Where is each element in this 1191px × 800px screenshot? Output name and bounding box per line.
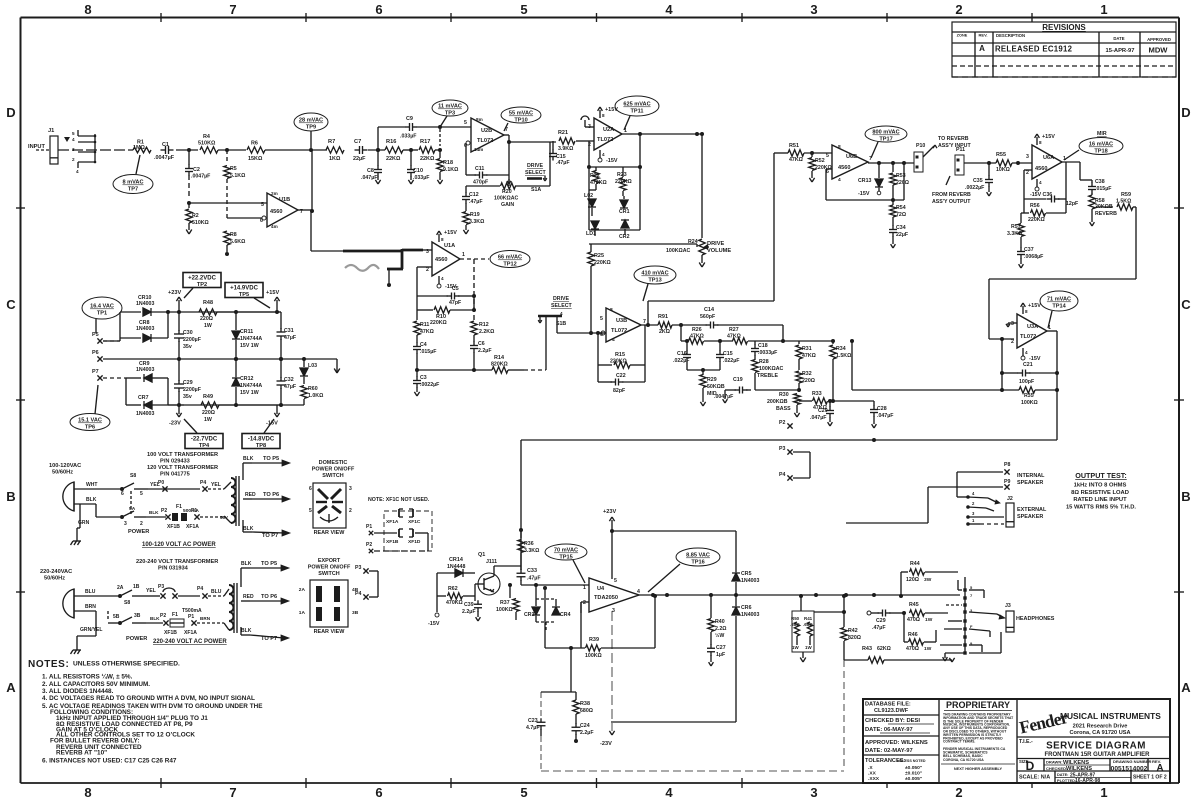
potentiometer R29 MID <box>700 370 725 406</box>
svg-text:410 mVAC: 410 mVAC <box>641 271 668 277</box>
capacitor C31 <box>277 312 297 361</box>
svg-text:220KΩ: 220KΩ <box>594 260 611 266</box>
svg-text:POWER ON/OFF: POWER ON/OFF <box>308 565 351 571</box>
svg-text:MDW: MDW <box>1149 46 1169 55</box>
svg-text:C12: C12 <box>469 192 479 198</box>
svg-text:R57: R57 <box>1011 224 1021 230</box>
op-amp U4 TDA2050 <box>583 578 640 614</box>
svg-text:1N4003: 1N4003 <box>136 326 154 332</box>
svg-text:DATE: 06-MAY-97: DATE: 06-MAY-97 <box>865 727 913 733</box>
LED LD1 <box>586 221 599 237</box>
resistor R10 <box>417 296 474 326</box>
wire <box>298 150 314 213</box>
wire <box>964 161 996 165</box>
svg-text:BLK: BLK <box>86 497 97 503</box>
svg-text:DATE: DATE <box>1113 36 1124 41</box>
svg-text:CR4: CR4 <box>560 612 571 618</box>
svg-text:R31: R31 <box>802 346 812 352</box>
power label +23V <box>168 290 182 312</box>
resistor R23 <box>615 167 632 196</box>
svg-text:6. INSTANCES NOT USED: C17 C25: 6. INSTANCES NOT USED: C17 C25 C26 R47 <box>42 758 177 765</box>
svg-text:1: 1 <box>1100 2 1107 17</box>
test point TP11 <box>615 96 659 130</box>
svg-text:B: B <box>1181 489 1190 504</box>
svg-text:R19: R19 <box>470 212 480 218</box>
internal speaker <box>846 462 1045 523</box>
resistor R40 <box>708 593 727 645</box>
resistor R2 <box>186 203 209 234</box>
resistor R62 <box>437 573 475 606</box>
svg-text:C39: C39 <box>464 602 474 608</box>
svg-text:5.1KΩ: 5.1KΩ <box>230 173 245 179</box>
svg-text:VOLUME: VOLUME <box>707 248 731 254</box>
svg-text:4: 4 <box>665 2 673 17</box>
svg-text:2KΩ: 2KΩ <box>659 329 670 335</box>
svg-text:R44: R44 <box>910 561 920 567</box>
svg-text:J2: J2 <box>1007 496 1013 502</box>
feedback C22 <box>598 365 645 394</box>
svg-text:P2: P2 <box>161 508 167 514</box>
svg-text:.047µF: .047µF <box>810 415 827 421</box>
svg-text:220KΩ: 220KΩ <box>610 359 627 365</box>
svg-text:R49: R49 <box>203 394 213 400</box>
output resistors R50 R41 <box>790 594 814 662</box>
domestic switch rear view <box>309 460 355 536</box>
svg-text:100KΩAC: 100KΩAC <box>494 196 519 202</box>
svg-text:R35: R35 <box>1024 393 1034 399</box>
svg-text:R41: R41 <box>804 616 813 621</box>
svg-text:BLU: BLU <box>85 589 96 595</box>
svg-text:3: 3 <box>810 2 817 17</box>
svg-text:8: 8 <box>602 113 605 118</box>
tone output wire <box>850 339 1002 390</box>
svg-text:PLOTTED:: PLOTTED: <box>1057 779 1076 783</box>
export power caption <box>153 639 227 645</box>
wire <box>814 610 846 614</box>
svg-text:BLK: BLK <box>243 456 254 462</box>
svg-text:A: A <box>979 44 985 53</box>
svg-text:±0.010": ±0.010" <box>905 771 922 777</box>
svg-text:XF1C: XF1C <box>408 519 421 525</box>
svg-text:22µF: 22µF <box>896 232 909 238</box>
jack switch contacts <box>64 130 96 174</box>
wire <box>589 244 705 267</box>
svg-text:.0047µF: .0047µF <box>191 174 211 180</box>
svg-text:4: 4 <box>602 152 605 157</box>
secondary labels export <box>241 561 289 642</box>
note XF1C <box>366 497 432 553</box>
svg-text:5: 5 <box>72 131 75 136</box>
svg-text:C15: C15 <box>723 351 733 357</box>
svg-text:7: 7 <box>229 785 236 800</box>
connector pin P7 <box>92 369 103 381</box>
svg-text:6: 6 <box>121 491 124 497</box>
title block right column <box>1017 711 1170 784</box>
ground arrow <box>334 366 340 373</box>
svg-text:3.3KΩ: 3.3KΩ <box>469 219 484 225</box>
resistor R21 <box>558 130 575 152</box>
svg-text:1W: 1W <box>925 617 933 623</box>
capacitor C15b <box>687 341 740 372</box>
test point TP14 <box>1040 291 1078 328</box>
secondary labels <box>243 456 290 539</box>
svg-text:BRN: BRN <box>200 616 211 621</box>
svg-text:.033µF: .033µF <box>413 175 430 181</box>
svg-text:TP12: TP12 <box>503 262 516 268</box>
svg-text:2: 2 <box>140 521 143 527</box>
drive select switch S1B <box>538 296 573 333</box>
svg-text:P4: P4 <box>197 586 203 592</box>
diodes CR3 CR4 <box>524 585 571 630</box>
svg-text:C22: C22 <box>616 373 626 379</box>
svg-text:REAR VIEW: REAR VIEW <box>314 629 346 635</box>
diode CR1 <box>619 196 630 215</box>
resistor R54 <box>890 200 906 226</box>
svg-text:PROPRIETARY: PROPRIETARY <box>946 700 1010 710</box>
svg-text:800 mVAC: 800 mVAC <box>872 130 899 136</box>
svg-text:680Ω: 680Ω <box>580 708 593 714</box>
svg-text:-23V: -23V <box>600 741 612 747</box>
primary wires <box>148 480 224 492</box>
svg-text:510KΩ: 510KΩ <box>198 141 216 147</box>
svg-text:2.2KΩ: 2.2KΩ <box>479 329 494 335</box>
svg-text:1N4003: 1N4003 <box>136 367 154 373</box>
svg-text:R12: R12 <box>479 322 489 328</box>
svg-text:C6: C6 <box>478 341 485 347</box>
capacitor C8 <box>361 150 382 184</box>
svg-text:TP7: TP7 <box>128 187 138 193</box>
svg-text:47KΩ: 47KΩ <box>727 334 741 340</box>
svg-text:TP5: TP5 <box>239 292 249 298</box>
svg-text:.033µF: .033µF <box>400 134 417 140</box>
svg-text:2.2µF: 2.2µF <box>462 609 476 615</box>
fuse F1 domestic <box>146 504 224 530</box>
svg-text:.0033µF: .0033µF <box>758 350 778 356</box>
svg-text:GAIN: GAIN <box>501 202 514 208</box>
resistor R26 <box>681 325 704 344</box>
capacitor C39 <box>462 596 482 621</box>
svg-text:P/N 029433: P/N 029433 <box>160 459 190 465</box>
svg-text:P2: P2 <box>366 542 372 548</box>
wire <box>368 148 385 152</box>
test point TP9 <box>294 113 328 148</box>
svg-text:CR5: CR5 <box>741 571 752 577</box>
svg-text:35v: 35v <box>183 344 192 350</box>
diode CR14 <box>437 557 475 577</box>
svg-text:P5: P5 <box>92 332 99 338</box>
fuse F1 export <box>146 608 224 636</box>
svg-text:4560: 4560 <box>838 165 850 171</box>
svg-text:BLU: BLU <box>211 589 222 595</box>
svg-text:R17: R17 <box>420 139 430 145</box>
svg-text:REVISIONS: REVISIONS <box>1042 23 1086 32</box>
svg-text:50/60Hz: 50/60Hz <box>44 576 65 582</box>
svg-text:TO P6: TO P6 <box>263 492 279 498</box>
svg-text:C24: C24 <box>580 723 590 729</box>
svg-text:U3B: U3B <box>616 318 627 324</box>
svg-text:C34: C34 <box>896 225 906 231</box>
svg-text:.0022µF: .0022µF <box>965 185 985 191</box>
svg-text:TO P7: TO P7 <box>262 533 278 539</box>
wire <box>576 132 702 141</box>
svg-text:±0.005": ±0.005" <box>905 776 922 782</box>
svg-text:TP6: TP6 <box>85 425 95 431</box>
svg-text:C18: C18 <box>758 343 768 349</box>
svg-text:15 WATTS RMS 5% T.H.D.: 15 WATTS RMS 5% T.H.D. <box>1066 505 1136 511</box>
svg-text:5: 5 <box>261 202 264 208</box>
svg-text:REAR VIEW: REAR VIEW <box>314 530 346 536</box>
jumper P3 <box>146 584 224 599</box>
svg-text:C2: C2 <box>193 167 200 173</box>
svg-text:DATABASE FILE:: DATABASE FILE: <box>865 702 911 708</box>
resistor R33 <box>799 390 874 411</box>
resistor R17 <box>419 139 440 162</box>
svg-text:100 VOLT TRANSFORMER: 100 VOLT TRANSFORMER <box>147 452 218 458</box>
svg-text:220-240 VOLT AC POWER: 220-240 VOLT AC POWER <box>153 639 227 645</box>
svg-text:S8: S8 <box>130 473 136 479</box>
svg-text:P6: P6 <box>92 350 99 356</box>
svg-text:.0047µF: .0047µF <box>154 155 175 161</box>
svg-text:CR14: CR14 <box>449 557 463 563</box>
svg-text:3B: 3B <box>134 613 141 619</box>
svg-text:R33: R33 <box>812 391 822 397</box>
wire <box>521 438 1057 442</box>
svg-text:100KΩAC: 100KΩAC <box>759 366 784 372</box>
svg-text:TL072: TL072 <box>477 138 493 144</box>
capacitor C19 <box>723 370 751 403</box>
wire <box>218 148 246 152</box>
op-amp U2A <box>581 116 627 150</box>
zener CR12 <box>232 359 262 405</box>
svg-text:BLK: BLK <box>241 561 252 567</box>
svg-text:C1: C1 <box>162 142 169 148</box>
svg-text:C3: C3 <box>420 375 427 381</box>
svg-text:3B: 3B <box>352 610 359 616</box>
svg-text:7: 7 <box>229 2 236 17</box>
capacitor C18 <box>751 341 778 356</box>
capacitor C1 <box>154 142 175 161</box>
svg-text:1KΩ: 1KΩ <box>329 156 341 162</box>
svg-text:4m: 4m <box>271 224 278 229</box>
svg-text:C33: C33 <box>527 568 537 574</box>
svg-text:15.1 VAC: 15.1 VAC <box>78 418 102 424</box>
svg-text:C38: C38 <box>1095 179 1105 185</box>
svg-text:510KΩ: 510KΩ <box>192 220 209 226</box>
svg-text:C16: C16 <box>677 351 687 357</box>
svg-text:+15V: +15V <box>266 290 279 296</box>
op-amp U3B <box>600 307 646 343</box>
svg-text:5: 5 <box>600 316 603 322</box>
svg-text:4. DC VOLTAGES READ TO GROUND: 4. DC VOLTAGES READ TO GROUND WITH A DVM… <box>42 695 255 702</box>
svg-text:4: 4 <box>637 589 640 595</box>
svg-text:P1: P1 <box>366 524 372 530</box>
svg-text:F1: F1 <box>176 504 182 510</box>
op-amp U2B <box>464 117 508 152</box>
svg-text:3: 3 <box>810 785 817 800</box>
svg-text:.015µF: .015µF <box>420 349 437 355</box>
svg-text:5: 5 <box>140 491 143 497</box>
svg-text:R18: R18 <box>443 160 453 166</box>
svg-text:5: 5 <box>464 120 467 126</box>
capacitor C6 <box>470 335 492 354</box>
svg-text:XF1B: XF1B <box>164 630 177 636</box>
svg-text:R28: R28 <box>759 359 769 365</box>
svg-text:TP8: TP8 <box>256 443 266 449</box>
svg-text:3: 3 <box>349 486 352 492</box>
svg-text:4: 4 <box>1039 180 1042 185</box>
power -15V <box>428 596 440 627</box>
potentiometer R24 DRIVE VOLUME <box>666 239 731 255</box>
svg-text:.0047µF: .0047µF <box>714 394 734 400</box>
svg-text:ASS'Y OUTPUT: ASS'Y OUTPUT <box>932 199 971 205</box>
voltage box TP5 <box>225 283 270 309</box>
svg-text:TO P6: TO P6 <box>261 594 277 600</box>
svg-text:+22.2VDC: +22.2VDC <box>188 276 217 282</box>
svg-text:C37: C37 <box>1024 247 1034 253</box>
svg-text:70 mVAC: 70 mVAC <box>554 548 578 554</box>
svg-text:NOTE: XF1C NOT USED.: NOTE: XF1C NOT USED. <box>368 497 430 503</box>
diode CR13 <box>858 163 883 197</box>
svg-text:4: 4 <box>441 276 444 281</box>
wire <box>311 211 343 251</box>
capacitor C33 <box>517 568 590 587</box>
svg-text:R27: R27 <box>729 327 739 333</box>
capacitor C29 <box>867 610 906 632</box>
power label +15V <box>266 290 280 314</box>
svg-text:R51: R51 <box>789 143 799 149</box>
svg-text:560pF: 560pF <box>700 314 716 320</box>
svg-text:1W: 1W <box>805 645 812 650</box>
capacitor C24 <box>572 723 595 743</box>
svg-text:UNLESS OTHERWISE SPECIFIED.: UNLESS OTHERWISE SPECIFIED. <box>73 661 180 668</box>
capacitor C35 <box>965 163 993 196</box>
svg-text:22KΩ: 22KΩ <box>420 156 435 162</box>
potentiometer R30 BASS <box>755 390 800 417</box>
resistor R49 <box>201 394 219 423</box>
svg-text:2A: 2A <box>299 587 306 593</box>
svg-text:R91: R91 <box>658 314 668 320</box>
svg-text:47KΩ: 47KΩ <box>420 329 434 335</box>
feedback R15 <box>598 325 645 368</box>
resistor R25 <box>588 244 611 333</box>
svg-text:TP3: TP3 <box>445 111 455 117</box>
svg-text:4560: 4560 <box>1035 166 1047 172</box>
svg-text:R5: R5 <box>230 166 237 172</box>
svg-text:.47µF: .47µF <box>469 199 483 205</box>
svg-text:100KΩ: 100KΩ <box>1021 400 1038 406</box>
svg-text:1kHz INTO 8 OHMS: 1kHz INTO 8 OHMS <box>1074 483 1127 489</box>
power pins U1A <box>437 230 458 290</box>
wire <box>581 593 960 648</box>
LED L03 <box>300 359 317 384</box>
connector pins P3 P4 <box>355 565 378 600</box>
wire <box>403 148 418 152</box>
thick drive wire <box>343 249 403 287</box>
svg-text:8: 8 <box>1025 309 1028 314</box>
potentiometer R20 GAIN <box>466 179 550 208</box>
svg-text:R36: R36 <box>524 541 534 547</box>
svg-text:55 mVAC: 55 mVAC <box>509 111 533 117</box>
capacitor C36 <box>1024 162 1079 207</box>
svg-text:R50: R50 <box>791 616 800 621</box>
svg-text:P7: P7 <box>92 369 99 375</box>
svg-text:C32: C32 <box>284 377 294 383</box>
svg-text:½W: ½W <box>715 632 724 639</box>
diode CR9 <box>126 361 168 405</box>
svg-text:XF1B: XF1B <box>386 539 399 545</box>
svg-text:REV.: REV. <box>978 33 987 38</box>
svg-text:R56: R56 <box>1030 203 1040 209</box>
svg-text:R62: R62 <box>448 586 458 592</box>
svg-text:P4: P4 <box>355 591 362 597</box>
wire <box>180 357 337 366</box>
svg-text:2200µF: 2200µF <box>183 387 202 393</box>
connector pin P5 <box>92 332 120 344</box>
wire <box>641 301 774 327</box>
svg-text:XF1B: XF1B <box>167 524 180 530</box>
svg-text:1W: 1W <box>792 645 799 650</box>
svg-text:9.1KΩ: 9.1KΩ <box>443 167 458 173</box>
resistor R57 <box>1007 213 1024 237</box>
wire <box>189 202 267 204</box>
svg-text:R34: R34 <box>836 346 846 352</box>
svg-text:P0: P0 <box>158 480 164 486</box>
feedback C21 <box>1000 339 1057 392</box>
svg-text:10KΩ: 10KΩ <box>996 167 1010 173</box>
svg-text:220Ω: 220Ω <box>896 180 909 186</box>
svg-text:FROM REVERB: FROM REVERB <box>932 192 971 198</box>
svg-text:U2B: U2B <box>481 128 492 134</box>
svg-text:TO REVERB: TO REVERB <box>938 136 969 142</box>
svg-text:R45: R45 <box>909 602 919 608</box>
svg-text:XF1D: XF1D <box>408 539 421 545</box>
svg-text:TP9: TP9 <box>306 125 316 131</box>
svg-text:7: 7 <box>643 319 646 325</box>
svg-text:2: 2 <box>1026 170 1029 176</box>
svg-text:11 mVAC: 11 mVAC <box>438 104 462 110</box>
svg-text:R8: R8 <box>230 232 237 238</box>
svg-text:3: 3 <box>612 608 615 614</box>
svg-text:8 mVAC: 8 mVAC <box>122 180 143 186</box>
svg-text:8Ω RESISTIVE LOAD: 8Ω RESISTIVE LOAD <box>1071 490 1129 496</box>
svg-text:R16: R16 <box>386 139 396 145</box>
resistor R32 <box>796 371 815 392</box>
svg-text:56V: 56V <box>220 515 228 520</box>
svg-text:15KΩ: 15KΩ <box>248 156 263 162</box>
svg-text:CONTRACT TERMS.: CONTRACT TERMS. <box>943 740 975 744</box>
svg-text:DATE:: DATE: <box>1057 773 1068 777</box>
svg-text:2: 2 <box>1011 339 1014 345</box>
svg-text:POWER ON/OFF: POWER ON/OFF <box>312 467 355 473</box>
svg-text:CORONA, CA 91720 USA: CORONA, CA 91720 USA <box>943 758 984 762</box>
resistor R1 <box>133 140 151 153</box>
svg-text:220Ω: 220Ω <box>202 410 215 416</box>
wire <box>166 310 304 407</box>
test point TP17 <box>865 126 907 158</box>
svg-text:R29: R29 <box>707 377 717 383</box>
svg-text:2: 2 <box>426 267 429 273</box>
svg-text:1N4003: 1N4003 <box>136 411 154 417</box>
svg-text:Corona, CA 91720 USA: Corona, CA 91720 USA <box>1069 730 1130 736</box>
svg-text:J3: J3 <box>1005 603 1011 609</box>
test point TP15 <box>545 544 587 583</box>
svg-text:1A: 1A <box>299 610 306 616</box>
wire <box>227 217 262 219</box>
svg-text:ASS'Y INPUT: ASS'Y INPUT <box>938 143 971 149</box>
svg-text:-23V: -23V <box>169 421 181 427</box>
svg-text:50KΩB: 50KΩB <box>707 384 725 390</box>
export switch rear view <box>299 558 359 635</box>
